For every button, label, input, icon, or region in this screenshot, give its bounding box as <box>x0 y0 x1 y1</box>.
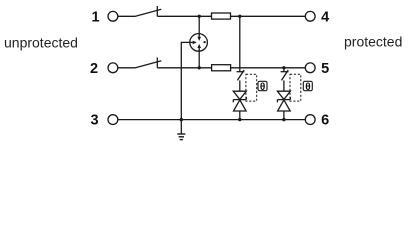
wire GDT bottom to row2 <box>198 51 200 68</box>
wire branch1 diode to row3 <box>239 111 241 120</box>
junction row3 branch2 <box>282 118 285 121</box>
gas discharge tube F1 <box>190 34 208 52</box>
wire GDT left electrode to ground <box>181 42 190 119</box>
svg-text:protected: protected <box>344 33 402 49</box>
wire row3 terminal3 to terminal6 <box>118 119 305 121</box>
wire row2 terminal2 to switch <box>118 67 136 69</box>
junction row2 GDT <box>198 66 201 69</box>
wire row2 switch to fuse <box>157 67 211 69</box>
dashed coupling box branch2 <box>290 74 301 101</box>
switch branch2 thermal disconnect <box>281 70 289 80</box>
wire row1 fuse to terminal 4 <box>231 15 306 17</box>
svg-text:unprotected: unprotected <box>4 34 78 50</box>
wire row1 switch to fuse <box>157 15 211 17</box>
terminal 5 <box>305 61 329 77</box>
switch S1 row1 <box>136 6 162 16</box>
terminal 2 <box>90 61 118 77</box>
terminal 3 <box>90 113 117 129</box>
svg-text:2: 2 <box>90 61 98 77</box>
terminal 1 <box>91 9 117 25</box>
junction row3 ground <box>180 118 183 121</box>
ground <box>177 120 185 140</box>
fuse row2 <box>212 65 231 71</box>
TVS diode D2 <box>277 91 290 111</box>
terminal 6 <box>305 113 329 129</box>
thermal monitor θ1 <box>258 81 267 93</box>
wire branch2 row2 to switch <box>283 68 285 72</box>
junction row1 GDT <box>198 15 201 18</box>
junction row2 branch2 <box>282 66 285 69</box>
svg-text:6: 6 <box>321 113 329 129</box>
wire branch1 switch to diode <box>239 80 241 91</box>
wire GDT top to row1 <box>198 16 200 33</box>
wire row2 fuse to terminal 5 <box>231 67 306 69</box>
svg-text:θ: θ <box>260 82 265 93</box>
TVS diode D1 <box>233 91 246 111</box>
wire branch2 switch to diode <box>283 80 285 91</box>
fuse row1 <box>212 13 231 19</box>
terminal 4 <box>305 9 329 25</box>
svg-text:3: 3 <box>90 113 98 129</box>
svg-text:4: 4 <box>321 9 329 25</box>
switch branch1 thermal disconnect <box>237 70 245 80</box>
wire branch2 diode to row3 <box>283 111 285 120</box>
thermal monitor θ2 <box>303 81 312 93</box>
svg-text:1: 1 <box>91 9 99 25</box>
wire branch1 row1 to switch <box>239 16 241 71</box>
svg-text:5: 5 <box>321 61 329 77</box>
svg-text:θ: θ <box>305 82 310 93</box>
dashed coupling box branch1 <box>246 74 257 101</box>
wire row1 terminal1 to switch <box>118 15 136 17</box>
junction row1 branch1 <box>238 15 241 18</box>
junction row3 branch1 <box>238 118 241 121</box>
switch S2 row2 <box>136 58 162 68</box>
